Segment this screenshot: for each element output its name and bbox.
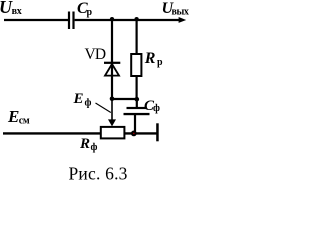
svg-text:R: R xyxy=(79,136,90,152)
resistor R_f (potentiometer) xyxy=(101,127,125,138)
wire: bottom node horizontal xyxy=(111,98,138,100)
capacitor C_f xyxy=(124,107,150,115)
node: junction dot C_f top xyxy=(135,97,140,102)
capacitor C_p xyxy=(68,12,75,30)
wire: C_f top lead xyxy=(136,99,138,108)
wire: top output wire with arrow xyxy=(75,17,187,23)
resistor R_p xyxy=(131,54,141,76)
wire: bottom bias wire (left of R_f) xyxy=(3,132,101,134)
label U_vyx xyxy=(162,0,189,17)
label E_sm xyxy=(7,107,30,127)
label R_p xyxy=(144,50,163,68)
wire: potentiometer wiper arrow xyxy=(108,100,116,126)
svg-text:р: р xyxy=(87,7,93,18)
svg-text:ф: ф xyxy=(153,103,160,114)
svg-text:E: E xyxy=(73,91,84,107)
svg-text:вых: вых xyxy=(172,7,189,18)
label U_vx xyxy=(0,0,22,17)
label C_p xyxy=(77,0,93,18)
svg-text:Рис. 6.3: Рис. 6.3 xyxy=(69,164,128,184)
svg-text:вх: вх xyxy=(12,6,22,17)
label C_f xyxy=(144,98,160,114)
svg-text:ф: ф xyxy=(85,98,92,109)
wire: top input wire xyxy=(4,19,68,21)
svg-text:VD: VD xyxy=(85,46,106,63)
diode VD xyxy=(104,62,120,76)
label R_f xyxy=(79,136,98,153)
node: junction dot diode branch (top) xyxy=(110,17,114,21)
wire: Rp branch vertical (top) xyxy=(136,20,138,55)
wire: Rp branch vertical (bottom) xyxy=(136,76,138,99)
svg-text:ф: ф xyxy=(91,142,98,153)
svg-text:E: E xyxy=(7,107,19,126)
node: junction dot diode anode xyxy=(110,97,115,102)
svg-text:р: р xyxy=(157,57,163,68)
terminal bar (right) xyxy=(156,123,159,141)
label E_f xyxy=(73,91,92,109)
wire: C_f bottom lead xyxy=(134,115,136,133)
node: junction dot Rp branch (top) xyxy=(134,17,138,21)
wire: diode branch vertical xyxy=(111,20,113,99)
svg-text:см: см xyxy=(19,116,30,127)
svg-text:R: R xyxy=(144,50,156,67)
node: junction dot C_f bottom (red center) xyxy=(131,131,137,137)
wire: bottom wire (right of R_f) xyxy=(124,132,157,134)
wire: E_f pointer line xyxy=(96,103,111,113)
